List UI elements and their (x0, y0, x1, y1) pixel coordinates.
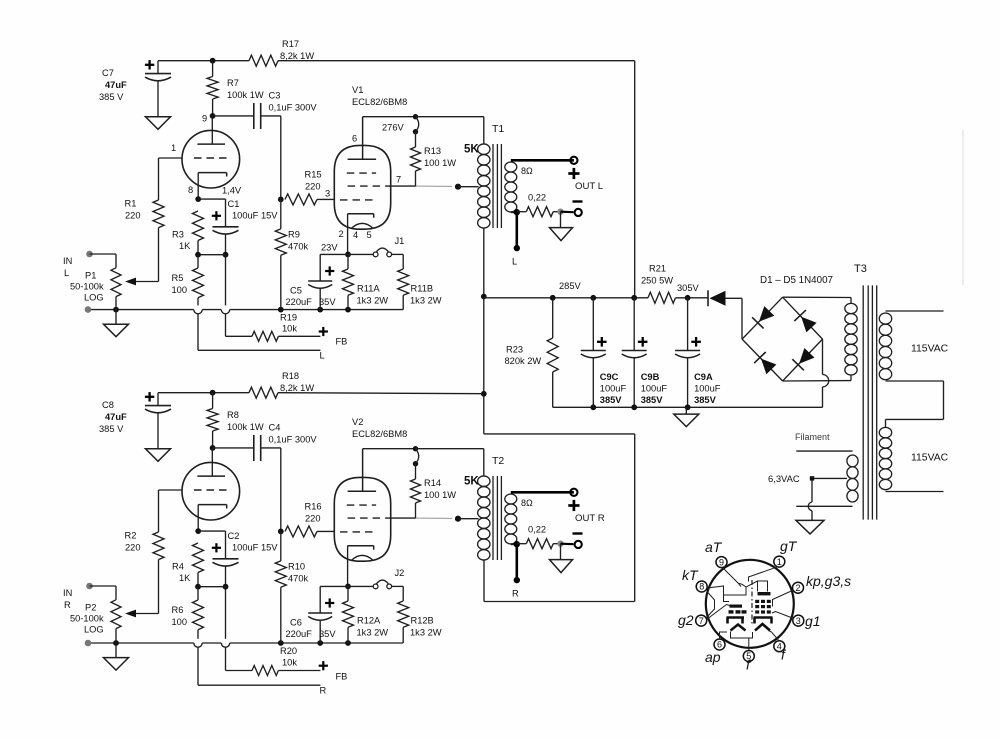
svg-text:ap: ap (705, 649, 721, 665)
svg-text:8,2k 1W: 8,2k 1W (280, 383, 314, 393)
svg-text:23V: 23V (321, 243, 338, 253)
svg-text:OUT L: OUT L (575, 181, 604, 192)
svg-text:P1: P1 (85, 271, 96, 281)
svg-text:50-100k: 50-100k (70, 614, 104, 624)
svg-text:8,2k 1W: 8,2k 1W (280, 51, 314, 61)
svg-text:C3: C3 (269, 91, 281, 101)
svg-text:10k: 10k (282, 658, 297, 668)
svg-text:3: 3 (796, 616, 801, 626)
svg-text:ECL82/6BM8: ECL82/6BM8 (352, 429, 407, 439)
svg-text:R20: R20 (280, 646, 297, 656)
svg-text:V1: V1 (352, 85, 363, 95)
svg-text:0,22: 0,22 (528, 193, 546, 203)
svg-text:820k 2W: 820k 2W (505, 356, 542, 366)
svg-text:R10: R10 (288, 562, 305, 572)
svg-text:R15: R15 (305, 170, 322, 180)
svg-text:100uF: 100uF (694, 384, 721, 394)
svg-text:220: 220 (125, 543, 141, 553)
svg-text:6,3VAC: 6,3VAC (768, 473, 800, 484)
svg-text:ECL82/6BM8: ECL82/6BM8 (352, 97, 407, 107)
svg-text:IN: IN (63, 588, 72, 598)
svg-text:100 1W: 100 1W (424, 490, 456, 500)
svg-text:100k 1W: 100k 1W (227, 90, 264, 100)
svg-text:5K: 5K (464, 144, 479, 156)
svg-text:R11B: R11B (411, 284, 434, 294)
svg-text:R6: R6 (172, 605, 184, 615)
svg-text:220uF: 220uF (286, 629, 313, 639)
svg-text:C4: C4 (269, 423, 281, 433)
svg-text:100uF 15V: 100uF 15V (232, 211, 278, 221)
svg-text:4: 4 (353, 230, 358, 240)
svg-text:J1: J1 (395, 236, 405, 246)
svg-text:1: 1 (777, 557, 782, 567)
svg-text:100uF: 100uF (641, 384, 668, 394)
svg-text:7: 7 (396, 175, 401, 185)
svg-text:gT: gT (780, 538, 798, 554)
svg-text:0,1uF 300V: 0,1uF 300V (269, 103, 318, 113)
svg-text:R19: R19 (280, 313, 297, 323)
svg-text:8: 8 (699, 582, 704, 592)
svg-text:IN: IN (63, 256, 72, 266)
svg-text:47uF: 47uF (105, 412, 127, 422)
svg-text:C7: C7 (102, 68, 114, 78)
svg-text:305V: 305V (677, 283, 700, 293)
svg-text:T2: T2 (492, 455, 504, 467)
svg-text:D1 – D5 1N4007: D1 – D5 1N4007 (760, 275, 833, 286)
svg-text:9: 9 (202, 114, 207, 124)
svg-text:1: 1 (171, 143, 176, 153)
svg-text:47uF: 47uF (105, 80, 127, 90)
svg-text:470k: 470k (288, 242, 309, 252)
svg-text:L: L (512, 257, 517, 267)
svg-text:C8: C8 (102, 400, 114, 410)
svg-text:LOG: LOG (84, 625, 104, 635)
svg-text:R16: R16 (305, 502, 322, 512)
svg-text:aT: aT (705, 539, 723, 555)
svg-text:g2: g2 (678, 612, 694, 628)
svg-text:5K: 5K (464, 476, 479, 488)
svg-text:8Ω: 8Ω (521, 166, 533, 176)
svg-text:R: R (512, 589, 519, 599)
svg-text:220: 220 (305, 514, 321, 524)
svg-text:1k3 2W: 1k3 2W (410, 296, 442, 306)
svg-text:220: 220 (305, 182, 321, 192)
svg-text:C9A: C9A (694, 372, 713, 382)
svg-text:FB: FB (336, 337, 348, 347)
svg-text:35V: 35V (319, 629, 336, 639)
svg-text:OUT R: OUT R (575, 513, 605, 524)
svg-text:R12A: R12A (357, 616, 381, 626)
svg-text:115VAC: 115VAC (911, 453, 949, 464)
svg-text:385V: 385V (694, 395, 717, 405)
svg-text:C9B: C9B (641, 372, 660, 382)
svg-text:1,4V: 1,4V (222, 186, 242, 196)
svg-text:0,22: 0,22 (528, 525, 546, 535)
svg-text:2: 2 (339, 229, 344, 239)
svg-text:R23: R23 (506, 345, 523, 355)
svg-text:C5: C5 (290, 286, 302, 296)
svg-text:C6: C6 (290, 618, 302, 628)
svg-text:115VAC: 115VAC (911, 344, 949, 355)
svg-text:R: R (64, 600, 71, 610)
svg-text:5: 5 (367, 230, 372, 240)
svg-text:C9C: C9C (600, 372, 619, 382)
svg-text:R4: R4 (172, 562, 184, 572)
svg-text:1K: 1K (179, 241, 191, 251)
svg-text:220uF: 220uF (286, 297, 313, 307)
svg-text:8: 8 (188, 185, 193, 195)
svg-text:6: 6 (352, 134, 357, 144)
svg-text:50-100k: 50-100k (70, 282, 104, 292)
svg-text:P2: P2 (85, 603, 96, 613)
svg-text:R13: R13 (424, 146, 441, 156)
svg-text:R1: R1 (125, 199, 137, 209)
svg-text:250 5W: 250 5W (641, 276, 673, 286)
svg-text:100uF: 100uF (600, 384, 627, 394)
svg-text:8Ω: 8Ω (521, 498, 533, 508)
svg-text:470k: 470k (288, 574, 309, 584)
svg-text:9: 9 (719, 557, 724, 567)
svg-text:FB: FB (336, 671, 348, 681)
svg-text:276V: 276V (382, 123, 405, 133)
svg-text:1k3 2W: 1k3 2W (410, 628, 442, 638)
svg-text:V2: V2 (352, 417, 363, 427)
svg-text:kT: kT (682, 567, 699, 583)
svg-text:385V: 385V (641, 395, 664, 405)
svg-text:R5: R5 (172, 273, 184, 283)
svg-text:R9: R9 (288, 230, 300, 240)
svg-text:R17: R17 (282, 39, 299, 49)
svg-text:2: 2 (795, 583, 800, 593)
svg-text:100: 100 (172, 617, 188, 627)
svg-text:C2: C2 (228, 531, 240, 541)
svg-text:g1: g1 (805, 613, 821, 629)
svg-text:0,1uF 300V: 0,1uF 300V (269, 435, 318, 445)
svg-text:10k: 10k (282, 324, 297, 334)
svg-text:T3: T3 (854, 263, 867, 275)
svg-text:R3: R3 (172, 230, 184, 240)
svg-text:R12B: R12B (411, 616, 434, 626)
svg-text:285V: 285V (559, 281, 582, 291)
svg-text:35V: 35V (319, 297, 336, 307)
svg-text:1k3 2W: 1k3 2W (357, 628, 389, 638)
svg-text:LOG: LOG (84, 293, 104, 303)
svg-text:R: R (320, 685, 327, 695)
svg-text:R21: R21 (649, 264, 666, 274)
svg-text:100 1W: 100 1W (424, 158, 456, 168)
svg-text:3: 3 (325, 189, 330, 199)
svg-text:100: 100 (172, 285, 188, 295)
svg-text:T1: T1 (492, 123, 504, 135)
svg-text:1K: 1K (179, 573, 191, 583)
svg-text:100uF 15V: 100uF 15V (232, 543, 278, 553)
svg-text:L: L (64, 268, 69, 278)
svg-text:R2: R2 (125, 531, 137, 541)
svg-text:385 V: 385 V (99, 92, 124, 102)
svg-text:220: 220 (125, 211, 141, 221)
svg-text:R11A: R11A (357, 284, 380, 294)
svg-text:385 V: 385 V (99, 424, 124, 434)
svg-text:385V: 385V (600, 395, 623, 405)
svg-text:L: L (320, 351, 325, 361)
svg-text:J2: J2 (395, 568, 405, 578)
svg-text:C1: C1 (228, 199, 240, 209)
svg-text:7: 7 (699, 616, 704, 626)
svg-text:100k 1W: 100k 1W (227, 422, 264, 432)
svg-text:R8: R8 (227, 410, 239, 420)
svg-text:1k3 2W: 1k3 2W (357, 296, 389, 306)
svg-text:R7: R7 (227, 78, 239, 88)
svg-text:kp,g3,s: kp,g3,s (806, 573, 851, 589)
svg-text:Filament: Filament (795, 432, 830, 442)
svg-text:R18: R18 (282, 371, 299, 381)
svg-text:R14: R14 (424, 478, 441, 488)
